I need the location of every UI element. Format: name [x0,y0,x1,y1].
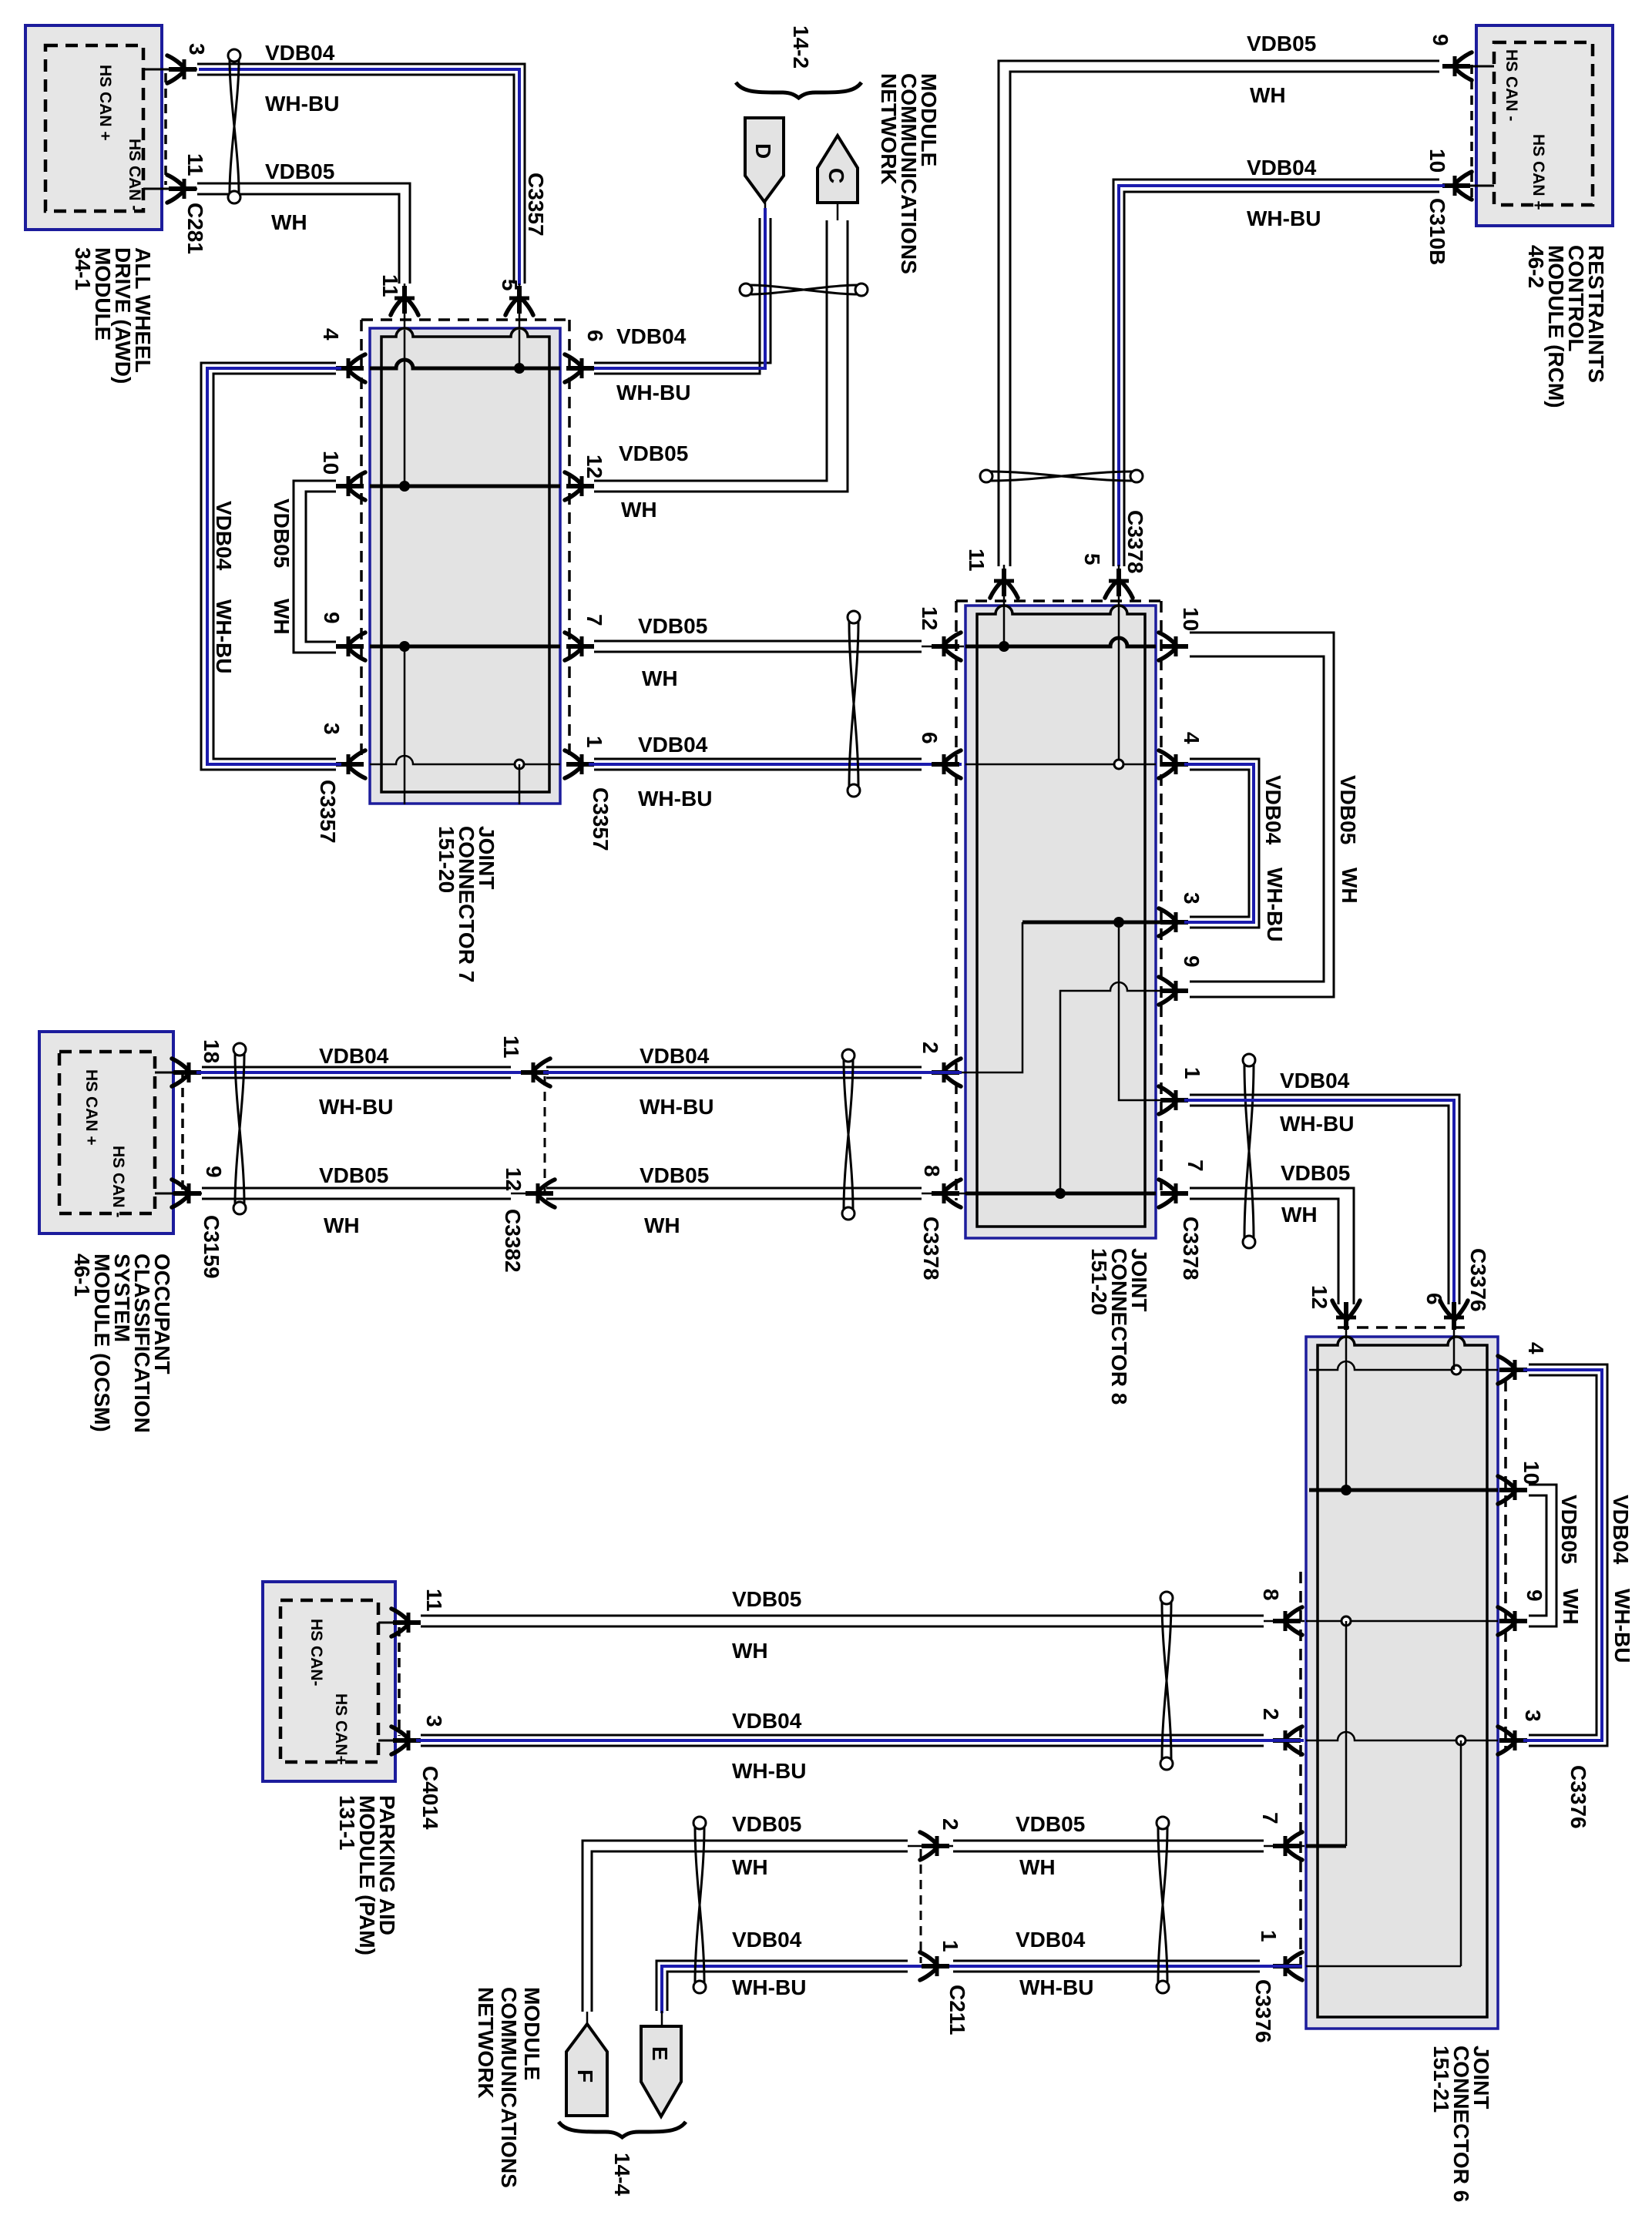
jumper wire VDB05 WH JC8 pin 10 to pin 9 [1190,633,1334,997]
svg-text:WH-BU: WH-BU [1263,868,1287,941]
wire VDB05 WH from C211 pin 2 to JC6 pin 7 [953,1840,1264,1842]
pin 5 JC7 top [517,286,522,314]
svg-text:8: 8 [1259,1589,1283,1601]
jumper wire VDB05 WH JC7 pin 10 to pin 9 [294,481,336,653]
module U2 RESTRAINTS CONTROL MODULE (RCM) 46-2 [1476,25,1613,226]
joint connector JC8 box [965,606,1156,1238]
svg-text:11: 11 [422,1589,446,1612]
wire VDB05 WH from PAM pin 11 to JC6 pin 8 [421,1615,1264,1617]
module U3 OCCUPANT CLASSIFICATION SYSTEM MODULE (OCSM) 46-1 [39,1032,173,1233]
jumper wire VDB04 WH-BU JC6 pin 4 to pin 3 [1529,1364,1607,1746]
jumper wire VDB04 WH-BU JC8 pin 4 to pin 3 [1190,759,1259,928]
svg-text:VDB04: VDB04 [616,324,687,348]
svg-text:C3376: C3376 [1466,1248,1490,1312]
svg-text:C4014: C4014 [418,1766,442,1830]
internal lead JC7 pin 11 [404,330,406,486]
twisted pair symbol PAM-JC6 wires [1162,1603,1171,1759]
wire VDB05 WH from AWD pin 11 to JC7 pin 11 [197,183,410,284]
pin 3 AWD [143,69,197,71]
svg-text:7: 7 [583,614,606,626]
svg-text:WH-BU: WH-BU [1610,1589,1634,1663]
wire VDB04 WH-BU from AWD pin 3 to JC7 pin 5 [197,64,525,284]
bus bar JC7 pins 9-7 [370,645,560,649]
pin 12 JC6 top [1344,1302,1348,1330]
svg-text:3: 3 [185,43,209,55]
svg-text:VDB04: VDB04 [732,1928,802,1952]
svg-text:5: 5 [498,279,522,291]
svg-text:WH-BU: WH-BU [212,599,236,673]
svg-text:VDB05: VDB05 [270,498,294,568]
internal lead JC6 pin 7 [1306,1844,1346,1848]
svg-text:WH-BU: WH-BU [732,1759,806,1783]
internal lead JC6 pin 6 [1453,1335,1456,1370]
svg-text:WH: WH [732,1639,768,1663]
pin 5 JC8 top [1116,569,1121,596]
svg-text:F: F [573,2069,597,2083]
internal lead JC7 bus3 down [519,764,521,804]
svg-text:WH: WH [621,498,657,522]
svg-text:D: D [751,143,775,159]
module U1 ALL WHEEL DRIVE (AWD) MODULE 34-1 [25,25,162,230]
wire VDB04 WH-BU from C211 pin 1 to JC6 pin 1 [953,1960,1260,1962]
pin 4 JC7 [336,366,364,371]
svg-text:VDB05: VDB05 [1557,1495,1581,1564]
pin 1 JC7 [566,762,594,767]
svg-text:VDB04: VDB04 [1280,1069,1350,1093]
svg-text:7: 7 [1184,1160,1207,1172]
svg-text:HS CAN -: HS CAN - [109,1146,127,1217]
connector C3378 dashed boundary JC8 [955,601,958,1200]
pin 6 JC7 [566,366,594,371]
svg-text:VDB04: VDB04 [319,1044,389,1068]
svg-text:VDB04: VDB04 [1609,1495,1633,1565]
svg-text:10: 10 [1425,149,1449,173]
svg-text:8: 8 [920,1165,944,1177]
pin 11 JC7 top [402,286,407,314]
svg-text:VDB04: VDB04 [638,733,708,757]
bus bar JC8 pin 3 [1022,921,1165,925]
wire VDB04 WH-BU from JC8 pin 1 to JC6 pin 6 [1190,1095,1459,1304]
svg-text:VDB04: VDB04 [1261,775,1285,845]
svg-text:C3357: C3357 [589,787,613,851]
svg-text:VDB05: VDB05 [1336,775,1360,844]
wire VDB04 WH-BU from OCSM pin 18 to C3382 pin 11 [202,1066,511,1069]
internal lead JC6 pin 1 riser [1460,1740,1462,1966]
pin 10 JC7 [336,484,364,488]
bus bar JC8 pins 8-7 [965,1192,1156,1196]
pin 2 JC6 [1273,1738,1301,1743]
svg-text:WH-BU: WH-BU [1280,1112,1354,1136]
bus bar JC8 pins 12-10 [965,638,1156,646]
pin 4 JC8 [1160,762,1188,767]
svg-text:6: 6 [583,330,607,342]
wire VDB04 WH-BU from PAM pin 3 to JC6 pin 2 [421,1734,1264,1737]
bus bar JC7 pins 3-1 [370,756,560,764]
internal lead JC8 pin 11 [1003,565,1006,646]
svg-text:VDB05: VDB05 [640,1163,709,1187]
bus bar JC6 pins 2-3 [1306,1732,1498,1740]
pin 3 JC6 [1499,1738,1527,1743]
svg-text:E: E [648,2046,672,2061]
off-page connector E [641,2026,681,2116]
pin 12 JC8 [932,644,959,649]
svg-text:WH-BU: WH-BU [616,381,690,404]
svg-text:9: 9 [1429,34,1452,46]
in-line connector C211 dashed boundary [920,1849,922,1963]
svg-text:5: 5 [1080,553,1104,566]
pin 7 JC6 [1273,1844,1301,1848]
twisted pair symbol OCSM wires [235,1054,244,1203]
svg-text:VDB04: VDB04 [732,1709,802,1733]
svg-text:12: 12 [583,455,606,478]
svg-text:3: 3 [422,1715,446,1727]
svg-text:2: 2 [918,1042,942,1054]
svg-text:1: 1 [1257,1930,1281,1942]
svg-text:VDB05: VDB05 [1247,32,1316,55]
twisted pair symbol F E wires [695,1828,704,1982]
pin 4 JC6 [1499,1368,1527,1372]
svg-text:HS CAN -: HS CAN - [1503,49,1520,121]
svg-text:14-2: 14-2 [789,25,813,69]
internal lead JC6 pin 12 [1345,1335,1348,1490]
wire VDB04 WH-BU from RCM pin 10 to JC8 pin 5 [1113,180,1439,566]
wire VDB04 WH-BU from connector E to C211 pin 1 [656,1961,908,2011]
twisted pair symbol JC8 right wires [1244,1065,1254,1237]
svg-text:WH: WH [1559,1589,1583,1625]
svg-text:WH-BU: WH-BU [638,787,712,811]
pin 2 C211 [922,1844,949,1848]
pin 3 JC7 [336,762,364,767]
internal lead JC7 bus9 down [404,646,406,804]
wire VDB05 WH from connector F to C211 pin 2 [583,1841,908,2012]
pin 9 RCM [1443,65,1494,68]
pin 10 JC8 [1160,644,1188,649]
connector C3357 dashed boundary JC7 [360,320,363,763]
svg-text:C3357: C3357 [524,173,548,237]
svg-text:C3376: C3376 [1251,1979,1275,2043]
module U4 PARKING AID MODULE (PAM) 131-1 [263,1582,395,1781]
svg-text:HS CAN +: HS CAN + [96,65,114,141]
bracket 14-2 [736,82,861,98]
svg-text:10: 10 [1519,1461,1543,1485]
pin 12 C3382 [525,1191,553,1196]
in-line connector C3382 dashed boundary [544,1076,546,1193]
pin 3 JC8 [1160,920,1188,925]
twisted pair symbol JC7-JC8 wires [849,622,858,786]
off-page connector F [566,2024,607,2116]
svg-text:VDB05: VDB05 [1016,1812,1085,1836]
twisted pair symbol AWD wires [230,60,239,193]
twisted pair symbol C3382-JC8 wires [844,1060,853,1209]
svg-text:1: 1 [583,736,606,748]
jumper wire VDB05 WH JC6 pin 10 to pin 9 [1529,1485,1556,1626]
joint connector JC6 box [1306,1337,1498,2029]
svg-text:WH: WH [324,1213,360,1237]
svg-text:VDB05: VDB05 [1281,1161,1350,1185]
svg-text:C3159: C3159 [200,1215,223,1279]
pin 11 PAM [378,1622,421,1624]
pin 12 JC7 [566,484,594,488]
svg-text:VDB04: VDB04 [265,41,335,65]
internal lead JC8 pin 3 to pin 2 [922,922,1022,1072]
pin 1 JC8 [1160,1098,1188,1103]
pin 1 JC6 [1273,1964,1301,1969]
bus bar JC8 pins 6-4 [965,764,1156,766]
svg-text:7: 7 [1258,1812,1282,1824]
svg-text:12: 12 [502,1167,525,1191]
svg-text:C3378: C3378 [919,1217,943,1280]
svg-text:C281: C281 [183,203,207,254]
svg-text:HS CAN +: HS CAN + [82,1069,100,1146]
svg-text:WH-BU: WH-BU [1019,1975,1093,1999]
svg-text:4: 4 [319,328,343,341]
svg-text:VDB05: VDB05 [265,159,334,183]
svg-text:VDB05: VDB05 [619,441,688,465]
pin 1 C211 [922,1964,949,1969]
svg-text:C3378: C3378 [1179,1217,1203,1280]
svg-text:2: 2 [938,1818,962,1831]
svg-text:2: 2 [1259,1708,1283,1720]
bus bar JC6 pin 10 [1309,1489,1498,1492]
internal lead JC8 pin 5 [1118,565,1120,764]
pin 2 JC8 [932,1070,959,1075]
svg-text:4: 4 [1524,1342,1548,1354]
svg-text:9: 9 [202,1166,226,1178]
svg-text:VDB04: VDB04 [212,501,236,571]
svg-text:VDB05: VDB05 [638,614,707,638]
pin 10 JC6 [1499,1488,1527,1492]
svg-text:10: 10 [319,451,343,475]
svg-text:C211: C211 [945,1985,969,2035]
pin 8 JC6 [1273,1619,1301,1623]
svg-text:C3378: C3378 [1123,510,1147,574]
svg-text:WH: WH [1338,868,1362,904]
svg-text:HS CAN +: HS CAN + [1529,134,1547,210]
internal lead JC8 pin 3 to pin 1 [1119,922,1165,1100]
svg-text:WH: WH [1250,83,1286,107]
svg-text:12: 12 [1308,1285,1331,1309]
pin 9 JC7 [336,644,364,649]
svg-text:HS CAN+: HS CAN+ [332,1693,350,1765]
svg-text:C310B: C310B [1425,198,1449,265]
connector C3376 dashed boundary JC6 [1338,1326,1466,1329]
twisted pair symbol C211-JC6 wires [1158,1828,1167,1982]
internal lead JC8 pin 9 to pin 8 [1060,982,1165,1193]
svg-text:C3376: C3376 [1566,1765,1590,1829]
connector C310B dashed boundary [1470,65,1473,203]
off-page connector D [745,118,784,202]
svg-text:WH: WH [732,1855,768,1879]
bus bar JC7 pins 4-6 [370,360,560,368]
svg-text:3: 3 [1180,892,1204,905]
svg-text:WH: WH [644,1213,680,1237]
twisted pair symbol D C wires [750,285,857,294]
svg-text:WH-BU: WH-BU [732,1975,806,1999]
svg-text:6: 6 [1422,1293,1446,1305]
wire VDB04 WH-BU from C3382 pin 11 to JC8 pin 2 [546,1066,922,1069]
svg-text:VDB05: VDB05 [319,1163,388,1187]
pin 8 JC8 [932,1191,959,1196]
svg-text:9: 9 [320,612,344,624]
svg-text:WH: WH [642,666,678,690]
internal lead JC7 pin 5 [519,330,521,368]
svg-text:6: 6 [918,732,942,744]
svg-text:11: 11 [378,274,402,297]
svg-text:VDB04: VDB04 [1016,1928,1086,1952]
svg-text:WH-BU: WH-BU [1247,206,1321,230]
svg-text:1: 1 [938,1940,962,1952]
bracket 14-4 [559,2122,686,2137]
bus bar JC7 pins 10-12 [370,485,560,488]
joint connector JC7 box [370,328,560,804]
wire VDB04 WH-BU from JC7 pin 1 to JC8 pin 6 [594,758,922,760]
pin 9 OCSM [155,1193,202,1195]
svg-text:WH: WH [1281,1203,1318,1227]
wire VDB04 WH-BU from JC7 pin 6 to connector D [594,218,771,363]
svg-text:1: 1 [1180,1067,1204,1079]
pin 6 JC6 top [1452,1302,1456,1330]
pin 9 JC6 [1499,1619,1527,1623]
wire VDB05 WH from C3382 pin 12 to JC8 pin 8 [546,1187,922,1190]
pin 7 JC8 [1160,1191,1188,1196]
wire VDB05 WH from JC7 pin 7 to JC8 pin 12 [594,640,922,643]
svg-text:C3357: C3357 [316,780,340,844]
svg-text:12: 12 [918,606,942,630]
pin 10 RCM [1443,185,1494,187]
svg-text:10: 10 [1179,607,1203,631]
svg-text:VDB05: VDB05 [732,1587,801,1611]
svg-text:4: 4 [1180,732,1204,744]
pin 11 JC8 top [1002,569,1006,596]
pin 7 JC7 [566,644,594,649]
connector C281 dashed boundary [164,73,167,185]
svg-text:WH-BU: WH-BU [319,1095,393,1119]
svg-text:14-4: 14-4 [610,2153,634,2196]
svg-text:C: C [824,168,848,183]
svg-text:HS CAN-: HS CAN- [307,1619,325,1687]
svg-text:VDB04: VDB04 [640,1044,710,1068]
pin 9 JC8 [1160,988,1188,993]
svg-text:9: 9 [1523,1589,1546,1602]
svg-text:VDB05: VDB05 [732,1812,801,1836]
connector C4014 dashed boundary [398,1627,401,1736]
pin 11 C3382 [521,1070,549,1075]
svg-text:WH-BU: WH-BU [640,1095,714,1119]
jumper wire VDB04 WH-BU JC7 pin 4 to pin 3 [201,363,336,770]
wire VDB05 WH from JC7 pin 12 to connector C [594,220,827,481]
bus bar JC6 pins 4 [1309,1361,1498,1370]
svg-text:WH: WH [270,599,294,635]
svg-text:VDB04: VDB04 [1247,156,1317,180]
svg-text:3: 3 [320,723,344,735]
svg-text:3: 3 [1521,1710,1545,1722]
svg-text:C3382: C3382 [501,1209,525,1273]
wire VDB05 WH from RCM pin 9 to JC8 pin 11 [999,61,1439,566]
internal lead JC6 pin 7 riser [1345,1621,1348,1846]
wire VDB05 WH from JC8 pin 7 to JC6 pin 12 [1190,1188,1354,1304]
internal lead JC6 pin 1 [1306,1965,1461,1968]
svg-text:9: 9 [1180,955,1204,968]
svg-text:11: 11 [965,549,989,572]
twisted pair symbol RCM wires [991,472,1132,481]
svg-text:WH: WH [1019,1855,1056,1879]
svg-text:11: 11 [499,1035,523,1059]
svg-text:11: 11 [183,153,207,176]
svg-text:WH-BU: WH-BU [265,92,339,116]
pin 6 JC8 [932,762,959,767]
off-page connector C [818,136,858,203]
pin 3 PAM [378,1740,421,1742]
bus bar JC6 pins 8-9 [1306,1620,1498,1623]
svg-text:WH: WH [271,210,307,234]
svg-text:HS CAN -: HS CAN - [126,139,143,210]
pin 18 OCSM [155,1072,202,1074]
connector C3159 dashed boundary [181,1072,184,1193]
svg-text:18: 18 [200,1039,223,1063]
wire VDB05 WH from OCSM pin 9 to C3382 pin 12 [202,1187,511,1190]
pin 11 AWD [143,188,197,190]
